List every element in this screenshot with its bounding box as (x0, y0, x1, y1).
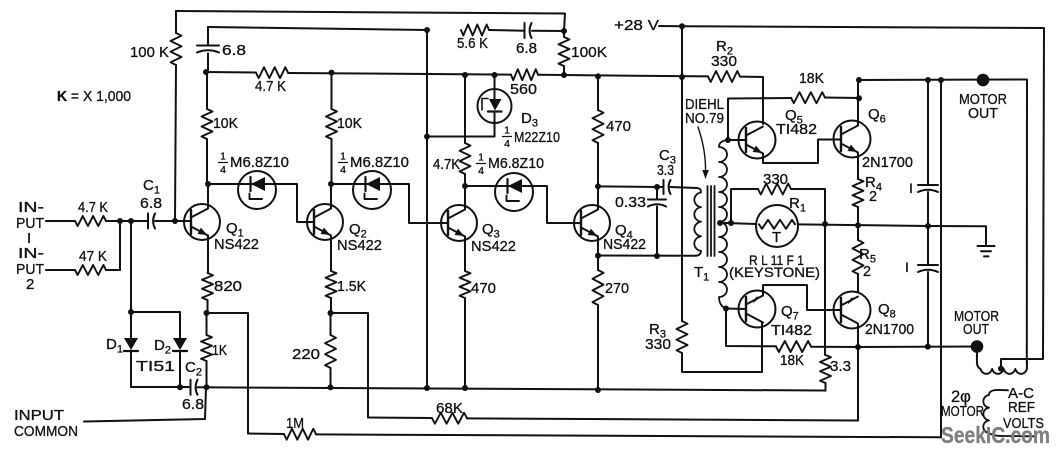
label +28V (614, 17, 682, 34)
wire Q5 emitter to Q6 base (763, 140, 841, 164)
svg-text:(KEYSTONE): (KEYSTONE) (729, 265, 820, 280)
svg-text:2: 2 (863, 263, 871, 280)
svg-text:MOTOR: MOTOR (941, 403, 984, 420)
svg-text:820: 820 (214, 278, 242, 295)
ground (978, 246, 995, 256)
transistor Q7 TI482 (739, 291, 813, 340)
svg-text:4: 4 (478, 165, 484, 177)
wire Q6 collector (857, 80, 859, 126)
diode 1/4 M6.8Z10 (first) (208, 151, 314, 223)
wire R3 bottom loop to Q7 collector (682, 323, 762, 373)
svg-text:47 K: 47 K (79, 248, 107, 265)
svg-text:330: 330 (645, 336, 671, 353)
svg-text:100 K: 100 K (130, 44, 169, 61)
resistor 1K (201, 313, 227, 387)
svg-text:NO.79: NO.79 (685, 110, 724, 127)
wire C3 to transformer primary (671, 187, 698, 188)
label MOTOR OUT (top) (959, 91, 1007, 122)
svg-text:4: 4 (504, 138, 510, 150)
wire Q8 collector to motor rail (857, 325, 859, 348)
svg-text:K = X 1,000: K = X 1,000 (57, 88, 131, 105)
wire 1.5K node to 68K (331, 313, 369, 418)
svg-text:NS422: NS422 (603, 236, 646, 253)
svg-text:IN-: IN- (18, 245, 44, 262)
svg-text:REF: REF (1008, 399, 1035, 416)
resistor 47K (input 2) (75, 248, 107, 275)
transistor Q6 2N1700 (834, 106, 914, 171)
resistor 4.7K (input 1) (75, 199, 108, 226)
diode 1/4 M6.8Z10 (third) (465, 152, 581, 224)
svg-text:4.7 K: 4.7 K (255, 78, 286, 95)
transformer T1 secondary winding (694, 140, 728, 308)
resistor 100K (middle) (559, 31, 608, 75)
wire transformer center tap (719, 223, 756, 224)
capacitor 1 (upper) (909, 180, 938, 196)
diode 1/4 M6.8Z10 (second) (331, 151, 448, 224)
wire motor out rail (bottom) (858, 346, 977, 349)
svg-text:2: 2 (869, 188, 877, 205)
wire Q3 emitter (464, 237, 466, 272)
resistor R3 330 (645, 321, 688, 353)
resistor 10K (first) (202, 72, 239, 184)
svg-text:1: 1 (478, 152, 484, 164)
svg-text:4.7K: 4.7K (433, 156, 460, 173)
svg-text:220: 220 (292, 346, 320, 363)
resistor R5 2 (853, 240, 876, 292)
wire Q3 collector (464, 186, 466, 210)
svg-text:10K: 10K (337, 115, 362, 132)
wire input common (84, 388, 206, 421)
resistor 470 (upper) (593, 76, 632, 186)
wire input node down to D1/D2 (130, 221, 132, 312)
resistor 5.6K (457, 25, 489, 53)
svg-text:M6.8Z10: M6.8Z10 (350, 154, 409, 171)
resistor 3.3 (feedback) (820, 355, 851, 391)
svg-text:IN-: IN- (18, 199, 44, 216)
diode D2 (131, 312, 187, 387)
label A-C REF VOLTS (1003, 385, 1044, 432)
transistor Q1 NS422 (184, 204, 259, 253)
svg-text:330: 330 (711, 53, 737, 70)
svg-text:0.33: 0.33 (615, 194, 646, 211)
svg-text:COMMON: COMMON (14, 423, 78, 440)
capacitor C3 3.3 (657, 147, 676, 194)
wire Q5 base to secondary top (728, 139, 746, 141)
wire 820 node to 1M (207, 313, 249, 434)
label DIEHL NO.79 with arrow (685, 96, 724, 179)
motor output winding (2-phase motor) (977, 347, 1027, 374)
svg-text:2: 2 (26, 276, 34, 293)
resistor 560 (510, 69, 538, 98)
resistor 18K (lower) (776, 341, 858, 369)
resistor 68K (368, 347, 858, 424)
wire +28V rail to right corner (682, 26, 1044, 368)
wire Q7 collector (761, 323, 763, 373)
wire input 2 (46, 221, 120, 270)
diode D1 TI51 (106, 312, 138, 387)
svg-text:1M: 1M (286, 415, 304, 432)
wire Q2 emitter (330, 236, 332, 272)
svg-text:1K: 1K (212, 342, 227, 359)
svg-text:4: 4 (220, 164, 226, 176)
svg-text:M6.8Z10: M6.8Z10 (488, 155, 544, 172)
wire motor out rail (top) (859, 80, 1027, 364)
svg-text:6.8: 6.8 (182, 396, 204, 413)
transistor Q3 NS422 (441, 205, 516, 255)
wire Q5 base to 18K (728, 98, 791, 140)
svg-text:M22Z10: M22Z10 (514, 129, 560, 146)
winding A-C reference (983, 390, 1034, 436)
svg-text:1: 1 (340, 151, 346, 163)
svg-text:INPUT: INPUT (14, 407, 64, 424)
svg-text:+28 V: +28 V (614, 17, 659, 34)
wire long vertical x=427 (426, 30, 428, 388)
resistor 270 (593, 270, 630, 390)
wire second rail (6.8 cap to junction) (208, 27, 564, 31)
svg-text:1: 1 (504, 125, 510, 137)
label INPUT 2 (16, 245, 44, 293)
watermark SeekIC.com (941, 422, 1050, 448)
capacitor 6.8 (top middle) (516, 23, 537, 57)
svg-text:18K: 18K (799, 70, 824, 87)
capacitor C2 6.8 (182, 359, 204, 413)
svg-text:1.5K: 1.5K (337, 278, 366, 295)
resistor 1.5K (326, 271, 367, 313)
resistor 4.7K (horizontal, supply rail) (255, 67, 288, 95)
wire input 1 (46, 220, 191, 222)
resistor 470 (lower) (460, 271, 497, 388)
wire Q7 base to secondary bottom (726, 308, 746, 311)
svg-text:I: I (909, 180, 913, 196)
svg-text:4.7 K: 4.7 K (78, 199, 108, 216)
capacitor 1 (lower) (905, 259, 938, 275)
wire Q1 collector (207, 184, 209, 209)
transistor Q4 NS422 (574, 205, 646, 253)
wire Q2 collector (330, 184, 332, 209)
terminal MOTOR OUT (top) (977, 74, 990, 87)
transformer T1 primary winding (694, 188, 701, 256)
svg-text:NS422: NS422 (214, 236, 259, 253)
wire Q4 collector to C3 (598, 185, 664, 188)
svg-text:100K: 100K (571, 44, 607, 61)
svg-text:68K: 68K (436, 400, 463, 417)
wire Q7 emitter to Q8 base (763, 285, 841, 310)
svg-text:2N1700: 2N1700 (862, 154, 913, 171)
wire secondary bottom to 18K lower (726, 309, 776, 347)
label 2-phase motor (941, 388, 984, 420)
resistor 10K (second) (326, 73, 362, 184)
svg-text:3.3: 3.3 (657, 162, 674, 179)
wire Q4 emitter (597, 237, 599, 271)
diode D3 M22Z10 (zener in circle) (427, 75, 560, 150)
wire feedback 1M column x=941 (940, 80, 942, 437)
relay R1 RL11F1 (729, 195, 820, 280)
svg-text:3.3: 3.3 (830, 358, 851, 375)
transistor Q8 2N1700 (834, 292, 915, 339)
svg-text:5.6 K: 5.6 K (457, 35, 488, 52)
svg-text:I: I (905, 259, 909, 275)
wire common rail (131, 387, 826, 391)
wire +28V column down to R3 (681, 26, 683, 321)
svg-text:18K: 18K (780, 352, 804, 369)
svg-text:M6.8Z10: M6.8Z10 (230, 154, 289, 171)
svg-text:470: 470 (471, 280, 496, 297)
wire center tap to ground line (798, 224, 986, 246)
label INPUT 1 (16, 199, 44, 247)
svg-text:TI51: TI51 (136, 358, 175, 375)
wire x=825 column (ground line to 3.3) (824, 224, 826, 355)
resistor R4 2 (853, 174, 882, 240)
svg-text:TI482: TI482 (776, 121, 817, 138)
resistor 1M (248, 415, 941, 440)
wire Q4 collector (597, 186, 599, 209)
svg-text:270: 270 (605, 280, 629, 297)
svg-text:SeekIC.com: SeekIC.com (941, 422, 1050, 448)
wire transformer primary bottom (598, 255, 696, 257)
resistor 100K (left) (130, 11, 182, 221)
transistor Q2 NS422 (307, 204, 382, 254)
label K = X 1,000 (57, 88, 131, 105)
svg-text:330: 330 (763, 171, 788, 188)
capacitor 6.8 (left, on x=208 column) (197, 27, 246, 72)
svg-text:10K: 10K (213, 115, 238, 132)
resistor 820 (202, 273, 242, 313)
wire top rail (100K top to 5.6K/6.8 junction) (176, 11, 565, 31)
resistor 18K (upper) (791, 70, 859, 103)
svg-text:OUT: OUT (963, 321, 989, 338)
svg-text:NS422: NS422 (471, 238, 516, 255)
svg-text:T: T (772, 229, 781, 246)
capacitor C1 6.8 (140, 177, 162, 229)
svg-text:560: 560 (510, 81, 537, 98)
svg-text:OUT: OUT (968, 105, 998, 122)
resistor 330 (relay shunt) (731, 171, 825, 224)
svg-text:TI482: TI482 (771, 322, 812, 339)
resistor 4.7K (vertical) (433, 75, 471, 186)
resistor R2 330 (708, 38, 740, 82)
svg-text:6.8: 6.8 (140, 195, 162, 212)
wire Q6 emitter (857, 154, 859, 180)
terminal MOTOR OUT (bottom) (971, 340, 984, 353)
wire Q1 emitter (207, 236, 209, 274)
transistor Q5 TI482 (739, 107, 818, 159)
svg-text:1: 1 (220, 151, 226, 163)
capacitor 0.33 (615, 187, 666, 256)
label INPUT COMMON (14, 407, 78, 440)
svg-text:470: 470 (606, 118, 631, 135)
svg-text:2N1700: 2N1700 (865, 321, 914, 338)
resistor 220 (292, 313, 336, 387)
transformer T1 core (708, 186, 715, 256)
svg-text:4: 4 (340, 164, 346, 176)
label MOTOR OUT (bottom) (954, 308, 999, 338)
svg-text:NS422: NS422 (337, 237, 382, 254)
wire supply rail y=72..77 (206, 72, 763, 124)
svg-text:6.8: 6.8 (222, 42, 246, 59)
wire cap column x=928 (927, 80, 929, 346)
svg-text:6.8: 6.8 (516, 40, 537, 57)
